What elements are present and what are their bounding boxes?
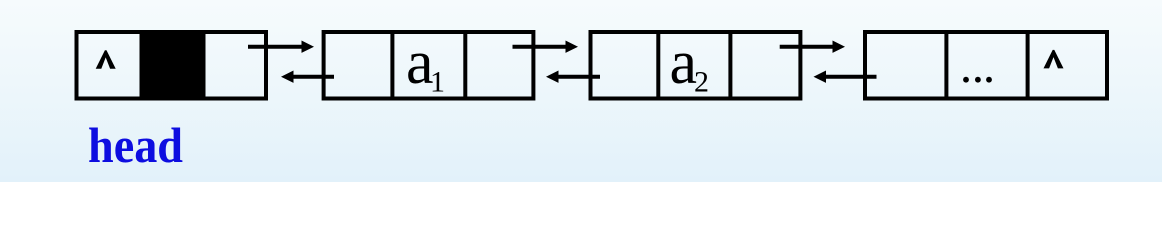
next arrow 2 head <box>566 41 579 53</box>
prev arrow 3 head <box>814 71 827 83</box>
node 1 caret ^ <box>96 50 116 68</box>
prev arrow 1 head <box>281 71 294 83</box>
node 3 divider 2 <box>728 32 732 99</box>
node 3 box <box>591 32 801 99</box>
svg-text:head: head <box>88 117 183 173</box>
prev arrow 2 line <box>559 75 601 79</box>
node 4 caret ^ <box>1044 50 1064 69</box>
node 2 divider 2 <box>463 32 467 99</box>
prev arrow 2 head <box>546 71 559 83</box>
svg-text:a: a <box>670 29 698 97</box>
node 4 ellipsis dots <box>963 77 969 83</box>
node 4 divider 2 <box>1026 32 1030 99</box>
prev arrow 3 line <box>826 75 877 79</box>
node 2 divider 1 <box>390 32 394 99</box>
node 1 (head node) box <box>77 32 267 99</box>
node 4 divider 1 <box>944 32 948 99</box>
next arrow 1 head <box>302 41 315 53</box>
next arrow 3 head <box>833 41 846 53</box>
node 2 box <box>324 32 534 99</box>
next arrow 2 line <box>513 45 567 49</box>
node 1 black middle cell <box>140 30 206 101</box>
node 3 divider 1 <box>656 32 660 99</box>
node 4 (tail node) box <box>865 32 1107 99</box>
prev arrow 1 line <box>294 75 335 79</box>
svg-text:2: 2 <box>694 66 709 99</box>
next arrow 1 line <box>248 45 304 49</box>
svg-text:1: 1 <box>430 66 445 99</box>
next arrow 3 line <box>780 45 833 49</box>
